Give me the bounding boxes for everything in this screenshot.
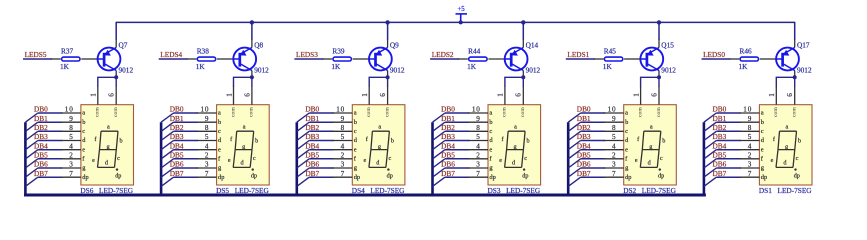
wire DB5	[581, 158, 606, 160]
svg-text:DB0: DB0	[577, 105, 591, 114]
svg-text:10: 10	[201, 106, 210, 114]
svg-text:DB2: DB2	[577, 123, 591, 132]
svg-text:DB5: DB5	[441, 150, 455, 159]
svg-text:DB4: DB4	[170, 141, 184, 150]
junction collector node	[386, 75, 390, 79]
wire DB5	[445, 158, 470, 160]
bus entry DB0	[161, 113, 173, 122]
svg-text:e: e	[354, 146, 357, 153]
svg-text:DB4: DB4	[34, 141, 48, 150]
svg-text:com: com	[95, 107, 101, 117]
svg-text:DB2: DB2	[441, 123, 455, 132]
svg-text:dp: dp	[794, 173, 800, 180]
svg-text:DB6: DB6	[577, 160, 591, 169]
wire collector to com pins	[98, 77, 116, 87]
bus entry DB7	[704, 177, 716, 186]
svg-text:g: g	[106, 143, 109, 150]
svg-text:DS2: DS2	[623, 186, 636, 195]
svg-text:1K: 1K	[603, 62, 613, 71]
junction collector node	[250, 75, 254, 79]
svg-text:DB7: DB7	[577, 169, 591, 178]
svg-text:4: 4	[69, 142, 73, 150]
svg-text:c: c	[117, 155, 120, 162]
svg-text:b: b	[82, 119, 85, 126]
junction collector node	[114, 75, 118, 79]
svg-text:DB4: DB4	[713, 141, 727, 150]
svg-text:dp: dp	[761, 174, 767, 181]
wire DB3	[309, 140, 334, 142]
svg-text:7: 7	[476, 170, 480, 178]
svg-text:10: 10	[65, 106, 74, 114]
svg-text:a: a	[761, 110, 764, 117]
bus entry DB6	[161, 168, 173, 177]
svg-text:DB6: DB6	[34, 160, 48, 169]
svg-text:com: com	[230, 107, 236, 117]
bus entry DB6	[568, 168, 580, 177]
svg-text:2: 2	[748, 151, 752, 159]
svg-text:com: com	[502, 107, 508, 117]
junction on rail	[385, 20, 389, 24]
svg-text:9012: 9012	[797, 66, 812, 75]
svg-text:b: b	[527, 138, 530, 145]
svg-text:LEDS3: LEDS3	[296, 50, 318, 59]
wire net LEDS1	[566, 58, 595, 60]
svg-text:9: 9	[69, 115, 73, 123]
bus entry DB7	[25, 177, 37, 186]
svg-text:c: c	[82, 128, 85, 135]
wire DB2	[174, 130, 199, 132]
svg-text:DB0: DB0	[34, 105, 48, 114]
bus riser	[24, 122, 27, 195]
bus entry DB1	[433, 122, 445, 131]
svg-text:com: com	[773, 107, 779, 117]
svg-text:LEDS2: LEDS2	[432, 50, 454, 59]
wire emitter to +5 rail	[794, 39, 796, 47]
bus entry DB3	[161, 141, 173, 150]
bus entry DB5	[161, 159, 173, 168]
bus entry DB2	[704, 131, 716, 140]
svg-text:LEDS1: LEDS1	[567, 50, 589, 59]
wire DB0	[445, 112, 470, 114]
svg-text:Q17: Q17	[797, 40, 810, 49]
wire DB6	[581, 167, 606, 169]
svg-text:5: 5	[612, 133, 616, 141]
svg-text:dp: dp	[115, 173, 121, 180]
wire collector	[115, 71, 117, 78]
svg-text:dp: dp	[489, 174, 495, 181]
wire DB7	[716, 176, 741, 178]
wire DB2	[581, 130, 606, 132]
svg-text:e: e	[625, 146, 628, 153]
svg-text:DB3: DB3	[170, 132, 184, 141]
svg-text:LED-7SEG: LED-7SEG	[778, 186, 813, 195]
svg-text:dp: dp	[658, 173, 664, 180]
svg-text:9012: 9012	[254, 66, 269, 75]
svg-text:1: 1	[225, 93, 233, 97]
svg-text:DB1: DB1	[441, 114, 455, 123]
svg-text:c: c	[489, 128, 492, 135]
bus entry DB4	[161, 150, 173, 159]
svg-text:c: c	[253, 155, 256, 162]
svg-text:a: a	[243, 123, 246, 130]
resistor R38 1K	[187, 46, 233, 70]
power symbol +5	[456, 6, 468, 22]
svg-text:10: 10	[336, 106, 345, 114]
wire DB5	[38, 158, 63, 160]
svg-text:g: g	[785, 143, 788, 150]
svg-text:7: 7	[612, 170, 616, 178]
transistor Q7 9012 PNP	[97, 40, 134, 74]
svg-text:1: 1	[632, 93, 640, 97]
svg-text:e: e	[489, 146, 492, 153]
svg-text:8: 8	[69, 124, 73, 132]
wire DB5	[716, 158, 741, 160]
bus entry DB3	[297, 141, 309, 150]
7-segment display DS2 LED-7SEG	[604, 87, 677, 195]
bus riser	[703, 122, 706, 195]
svg-text:e: e	[364, 157, 367, 164]
svg-text:3: 3	[748, 161, 752, 169]
svg-text:a: a	[378, 123, 381, 130]
bus entry DB5	[568, 159, 580, 168]
wire collector to com pins	[641, 77, 659, 87]
bus riser	[431, 122, 434, 195]
svg-text:e: e	[82, 146, 85, 153]
bus entry DB0	[25, 113, 37, 122]
svg-text:R38: R38	[197, 46, 210, 55]
svg-text:DB3: DB3	[305, 132, 319, 141]
svg-text:9012: 9012	[390, 66, 405, 75]
svg-text:DB0: DB0	[713, 105, 727, 114]
svg-text:a: a	[82, 110, 85, 117]
wire DB1	[716, 121, 741, 123]
wire collector	[251, 71, 253, 78]
7-segment display DS4 LED-7SEG	[332, 87, 405, 195]
svg-text:DB5: DB5	[305, 150, 319, 159]
svg-text:e: e	[771, 157, 774, 164]
svg-text:Q8: Q8	[254, 40, 263, 49]
wire DB4	[38, 149, 63, 151]
wire DB7	[174, 176, 199, 178]
svg-text:DB7: DB7	[713, 169, 727, 178]
svg-text:3: 3	[69, 161, 73, 169]
svg-text:1: 1	[497, 93, 505, 97]
junction collector node	[793, 75, 797, 79]
transistor Q14 9012 PNP	[504, 40, 541, 74]
svg-text:com: com	[366, 107, 372, 117]
svg-text:c: c	[389, 155, 392, 162]
svg-text:e: e	[92, 157, 95, 164]
bus entry DB0	[704, 113, 716, 122]
bus entry DB6	[25, 168, 37, 177]
svg-text:7: 7	[69, 170, 73, 178]
svg-text:3: 3	[612, 161, 616, 169]
svg-text:DB4: DB4	[441, 141, 455, 150]
wire DB1	[445, 121, 470, 123]
svg-text:DS3: DS3	[488, 186, 501, 195]
svg-text:6: 6	[243, 93, 251, 97]
svg-text:dp: dp	[625, 174, 631, 181]
svg-text:c: c	[625, 128, 628, 135]
svg-text:5: 5	[341, 133, 345, 141]
wire DB2	[445, 130, 470, 132]
svg-text:dp: dp	[251, 173, 257, 180]
bus entry DB2	[25, 131, 37, 140]
bus entry DB4	[568, 150, 580, 159]
wire net LEDS0	[702, 58, 731, 60]
bus entry DB6	[704, 168, 716, 177]
bus entry DB1	[568, 122, 580, 131]
bus entry DB4	[297, 150, 309, 159]
svg-text:1K: 1K	[739, 62, 749, 71]
wire DB5	[309, 158, 334, 160]
svg-text:7: 7	[205, 170, 209, 178]
svg-text:b: b	[662, 138, 665, 145]
svg-text:g: g	[649, 143, 652, 150]
wire DB2	[716, 130, 741, 132]
svg-text:a: a	[786, 123, 789, 130]
wire DB2	[309, 130, 334, 132]
wire collector	[522, 71, 524, 78]
bus riser	[160, 122, 163, 195]
wire DB1	[309, 121, 334, 123]
svg-text:e: e	[761, 146, 764, 153]
wire DB4	[581, 149, 606, 151]
wire collector	[658, 71, 660, 78]
svg-text:c: c	[218, 128, 221, 135]
bus entry DB5	[433, 159, 445, 168]
svg-text:b: b	[218, 119, 221, 126]
bus entry DB2	[568, 131, 580, 140]
bus entry DB3	[25, 141, 37, 150]
wire DB5	[174, 158, 199, 160]
svg-text:DB0: DB0	[305, 105, 319, 114]
bus entry DB5	[704, 159, 716, 168]
wire emitter to +5 rail	[387, 39, 389, 47]
svg-text:b: b	[391, 138, 394, 145]
wire DB4	[445, 149, 470, 151]
svg-text:7: 7	[748, 170, 752, 178]
svg-text:e: e	[218, 146, 221, 153]
wire DB4	[716, 149, 741, 151]
svg-text:2: 2	[205, 151, 209, 159]
svg-text:LED-7SEG: LED-7SEG	[370, 186, 405, 195]
bus entry DB7	[297, 177, 309, 186]
svg-text:10: 10	[472, 106, 481, 114]
svg-text:a: a	[107, 123, 110, 130]
svg-text:DS5: DS5	[216, 186, 229, 195]
svg-text:b: b	[255, 138, 258, 145]
svg-text:4: 4	[476, 142, 480, 150]
bus entry DB0	[568, 113, 580, 122]
svg-text:DB6: DB6	[441, 160, 455, 169]
svg-text:b: b	[798, 138, 801, 145]
svg-text:R37: R37	[61, 46, 74, 55]
svg-text:DB3: DB3	[713, 132, 727, 141]
wire DB7	[581, 176, 606, 178]
wire collector to com pins	[776, 77, 794, 87]
svg-text:DB5: DB5	[577, 150, 591, 159]
svg-text:1: 1	[768, 93, 776, 97]
svg-text:DB1: DB1	[34, 114, 48, 123]
wire emitter to +5 rail	[251, 39, 253, 47]
svg-text:b: b	[625, 119, 628, 126]
svg-text:DS4: DS4	[352, 186, 365, 195]
bus entry DB2	[433, 131, 445, 140]
svg-text:10: 10	[743, 106, 752, 114]
svg-text:DB2: DB2	[305, 123, 319, 132]
svg-text:Q9: Q9	[390, 40, 399, 49]
svg-text:LEDS0: LEDS0	[703, 50, 725, 59]
wire DB7	[38, 176, 63, 178]
svg-text:c: c	[660, 155, 663, 162]
svg-text:2: 2	[476, 151, 480, 159]
bus entry DB6	[297, 168, 309, 177]
svg-text:3: 3	[341, 161, 345, 169]
svg-text:6: 6	[515, 93, 523, 97]
svg-text:DS6: DS6	[80, 186, 93, 195]
svg-text:g: g	[378, 143, 381, 150]
wire DB0	[38, 112, 63, 114]
wire net LEDS2	[430, 58, 459, 60]
wire +5V rail	[116, 21, 795, 23]
bus entry DB2	[297, 131, 309, 140]
svg-text:g: g	[514, 143, 517, 150]
bus riser	[295, 122, 298, 195]
svg-text:com: com	[656, 107, 662, 117]
bus entry DB3	[568, 141, 580, 150]
svg-text:2: 2	[612, 151, 616, 159]
wire collector to com pins	[234, 77, 252, 87]
wire emitter to +5 rail	[522, 39, 524, 47]
junction on rail	[657, 20, 661, 24]
svg-text:DB2: DB2	[713, 123, 727, 132]
junction on rail	[250, 20, 254, 24]
svg-text:9: 9	[748, 115, 752, 123]
svg-text:DB5: DB5	[34, 150, 48, 159]
svg-text:com: com	[520, 107, 526, 117]
svg-text:DB3: DB3	[34, 132, 48, 141]
svg-text:DB1: DB1	[577, 114, 591, 123]
svg-text:LED-7SEG: LED-7SEG	[642, 186, 677, 195]
svg-text:Q7: Q7	[119, 40, 128, 49]
svg-text:c: c	[761, 128, 764, 135]
svg-text:LED-7SEG: LED-7SEG	[99, 186, 134, 195]
svg-text:9012: 9012	[526, 66, 541, 75]
svg-text:b: b	[354, 119, 357, 126]
bus entry DB2	[161, 131, 173, 140]
wire net LEDS3	[294, 58, 323, 60]
wire DB6	[309, 167, 334, 169]
svg-text:dp: dp	[522, 173, 528, 180]
resistor R39 1K	[322, 46, 368, 70]
svg-text:7: 7	[341, 170, 345, 178]
svg-text:a: a	[514, 123, 517, 130]
svg-text:2: 2	[341, 151, 345, 159]
svg-text:4: 4	[341, 142, 345, 150]
svg-text:2: 2	[69, 151, 73, 159]
svg-text:1K: 1K	[196, 62, 206, 71]
bus entry DB3	[704, 141, 716, 150]
wire DB1	[38, 121, 63, 123]
bus entry DB0	[297, 113, 309, 122]
bus entry DB1	[25, 122, 37, 131]
bus entry DB1	[704, 122, 716, 131]
svg-text:3: 3	[205, 161, 209, 169]
wire DB1	[174, 121, 199, 123]
svg-text:e: e	[635, 157, 638, 164]
svg-text:DB7: DB7	[170, 169, 184, 178]
transistor Q9 9012 PNP	[368, 40, 405, 74]
svg-text:1K: 1K	[467, 62, 477, 71]
svg-text:DB3: DB3	[441, 132, 455, 141]
svg-text:b: b	[761, 119, 764, 126]
wire collector	[794, 71, 796, 78]
resistor R46 1K	[730, 46, 776, 70]
wire DB0	[174, 112, 199, 114]
bus entry DB7	[161, 177, 173, 186]
svg-text:1: 1	[361, 93, 369, 97]
wire DB6	[174, 167, 199, 169]
svg-text:g: g	[242, 143, 245, 150]
bus entry DB5	[297, 159, 309, 168]
svg-text:c: c	[796, 155, 799, 162]
svg-text:8: 8	[476, 124, 480, 132]
svg-text:4: 4	[205, 142, 209, 150]
svg-text:com: com	[384, 107, 390, 117]
svg-text:Q15: Q15	[661, 40, 674, 49]
wire DB7	[309, 176, 334, 178]
svg-text:DB1: DB1	[170, 114, 184, 123]
svg-text:9012: 9012	[119, 66, 134, 75]
svg-text:LEDS5: LEDS5	[25, 50, 47, 59]
bus entry DB4	[704, 150, 716, 159]
wire DB6	[38, 167, 63, 169]
wire DB3	[716, 140, 741, 142]
svg-text:DB1: DB1	[305, 114, 319, 123]
svg-text:1: 1	[90, 93, 98, 97]
svg-text:R46: R46	[740, 46, 753, 55]
svg-text:b: b	[489, 119, 492, 126]
svg-text:a: a	[625, 110, 628, 117]
svg-text:com: com	[792, 107, 798, 117]
svg-text:dp: dp	[82, 174, 88, 181]
svg-text:DS1: DS1	[759, 186, 772, 195]
svg-text:3: 3	[476, 161, 480, 169]
svg-text:DB6: DB6	[305, 160, 319, 169]
wire DB0	[309, 112, 334, 114]
svg-text:com: com	[249, 107, 255, 117]
svg-text:9: 9	[205, 115, 209, 123]
svg-text:6: 6	[650, 93, 658, 97]
svg-text:DB5: DB5	[170, 150, 184, 159]
wire DB3	[581, 140, 606, 142]
svg-text:com: com	[637, 107, 643, 117]
7-segment display DS6 LED-7SEG	[61, 87, 134, 195]
wire DB3	[38, 140, 63, 142]
wire net LEDS4	[159, 58, 188, 60]
junction collector node	[521, 75, 525, 79]
svg-text:a: a	[354, 110, 357, 117]
wire DB6	[716, 167, 741, 169]
svg-text:10: 10	[608, 106, 617, 114]
svg-text:R44: R44	[468, 46, 481, 55]
wire DB2	[38, 130, 63, 132]
bus entry DB7	[433, 177, 445, 186]
wire DB4	[309, 149, 334, 151]
svg-text:5: 5	[748, 133, 752, 141]
bus entry DB4	[433, 150, 445, 159]
